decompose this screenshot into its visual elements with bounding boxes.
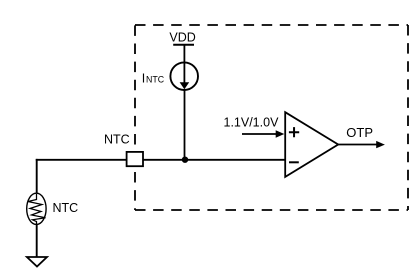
current source INTC: [170, 62, 198, 90]
svg-text:1.1V/1.0V: 1.1V/1.0V: [224, 115, 280, 129]
svg-text:NTC: NTC: [146, 75, 165, 85]
wire VDD bar to current source: [183, 45, 185, 63]
wire thermistor to ground: [36, 224, 38, 257]
junction node dot: [182, 157, 188, 163]
wire pin to comparator minus input: [143, 159, 285, 161]
wire left vertical: [36, 159, 38, 194]
output wire OTP: [338, 141, 385, 148]
arrow into plus input: [242, 130, 284, 137]
NTC pin square: [127, 152, 143, 166]
svg-text:I: I: [142, 72, 145, 86]
svg-text:NTC: NTC: [53, 201, 79, 215]
ground: [27, 257, 47, 267]
svg-text:OTP: OTP: [346, 125, 373, 140]
svg-text:NTC: NTC: [104, 133, 130, 147]
IC boundary dashed box: [135, 25, 408, 210]
svg-text:VDD: VDD: [169, 31, 195, 45]
comparator U1: [285, 112, 338, 177]
wire main left segment: [36, 159, 127, 161]
wire current source to node: [184, 90, 186, 160]
label INTC: [142, 72, 165, 86]
thermistor NTC: [27, 193, 46, 224]
VDD power rail bar: [173, 44, 194, 46]
